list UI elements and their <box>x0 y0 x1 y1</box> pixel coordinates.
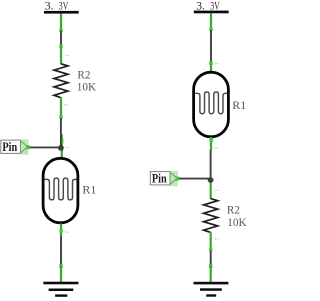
wire Pin flag to node A (left) <box>28 146 59 148</box>
svg-text:R1: R1 <box>82 183 96 197</box>
svg-text:R2: R2 <box>227 205 240 217</box>
Pin flag triangle (right) <box>170 172 177 184</box>
svg-text:R1: R1 <box>232 98 246 112</box>
terminal square R1 pin1 (left) <box>60 139 63 143</box>
Pin flag box (right) <box>150 172 170 185</box>
terminal square power pin (left) <box>59 28 62 31</box>
photoresistor R1 meander (right) <box>195 92 227 114</box>
power rail 3.3V bar (left) <box>44 11 79 14</box>
terminal square ground pin (left) <box>59 265 62 268</box>
ground pin lead (right) <box>210 266 212 283</box>
ground symbol (right) <box>194 282 229 297</box>
photoresistor R1 body (left) <box>43 158 78 223</box>
resistor R2 pin1 lead (left) <box>60 47 62 65</box>
photoresistor R1 body (right) <box>194 72 229 137</box>
resistor R2 pin2 lead (right) <box>210 232 212 249</box>
wire R1 to ground (left) <box>60 236 62 265</box>
resistor R2 zigzag (left) <box>54 64 68 98</box>
terminal square R2 pin2 (right) <box>209 248 212 251</box>
svg-text:10K: 10K <box>227 217 246 229</box>
terminal square R1 pin2 (right) <box>210 139 213 142</box>
resistor R2 zigzag (right) <box>204 199 218 233</box>
junction node A (left) <box>58 145 64 151</box>
photoresistor R1 pin1 lead (left) <box>61 135 63 159</box>
wire R1 to node B (right) <box>210 150 212 179</box>
resistor R2 pin1 lead (right) <box>210 181 212 199</box>
Pin flag green highlight (left) <box>20 139 29 154</box>
junction node B (right) <box>208 177 214 183</box>
wire power to R1 (right) <box>210 30 212 63</box>
power rail 3.3V bar (right) <box>194 11 229 14</box>
terminal square R2 pin1 (left) <box>59 44 62 47</box>
svg-text:Pin: Pin <box>152 171 167 186</box>
terminal square R2 pin2 (left) <box>59 115 62 118</box>
wire R2 to node A (left) <box>60 118 62 147</box>
ground pin lead (left) <box>60 266 62 283</box>
ground symbol (left) <box>43 282 78 297</box>
terminal square power pin (right) <box>209 28 212 31</box>
terminal square ground pin (right) <box>209 265 212 268</box>
svg-text:Pin: Pin <box>2 139 17 154</box>
wire power to R2 (left) <box>60 31 62 46</box>
Pin flag triangle (left) <box>21 141 28 153</box>
Pin flag tip terminal square (right) <box>176 177 179 181</box>
svg-text:10K: 10K <box>77 82 96 94</box>
photoresistor R1 meander (left) <box>45 178 77 200</box>
Pin flag box (left) <box>1 140 21 153</box>
photoresistor R1 pin2 lead (left) <box>60 224 62 237</box>
wire Pin flag to node B (right) <box>179 178 210 180</box>
photoresistor R1 pin2 lead (right) <box>210 137 212 151</box>
Pin flag green highlight (right) <box>169 171 178 186</box>
wire R2 to ground (right) <box>210 251 212 266</box>
pin lead of 3.3V symbol (left) <box>60 14 62 30</box>
Pin flag tip terminal square (left) <box>26 145 29 149</box>
pin lead of 3.3V symbol (right) <box>210 13 212 28</box>
terminal square R1 pin1 (right) <box>209 62 212 65</box>
resistor R2 pin2 lead (left) <box>60 97 62 117</box>
terminal square R1 pin2 (left) <box>60 229 63 232</box>
photoresistor R1 pin1 lead (right) <box>210 64 212 73</box>
svg-text:R2: R2 <box>77 69 90 81</box>
